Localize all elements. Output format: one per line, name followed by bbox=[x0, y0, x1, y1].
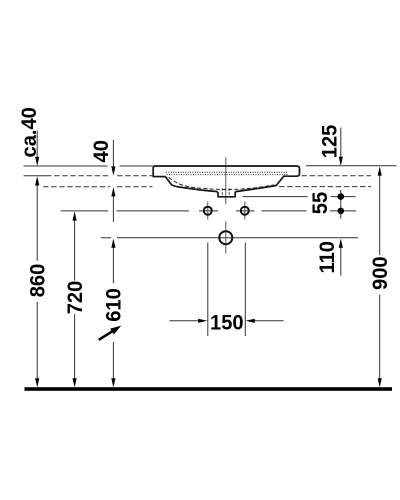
svg-text:110: 110 bbox=[316, 241, 340, 273]
svg-text:610: 610 bbox=[102, 288, 126, 322]
svg-text:55: 55 bbox=[308, 192, 332, 214]
svg-text:150: 150 bbox=[210, 311, 244, 335]
svg-text:40: 40 bbox=[89, 140, 113, 162]
svg-text:720: 720 bbox=[63, 281, 87, 315]
svg-text:860: 860 bbox=[26, 264, 50, 298]
svg-text:900: 900 bbox=[368, 256, 392, 290]
svg-text:ca.40: ca.40 bbox=[18, 107, 42, 157]
svg-text:125: 125 bbox=[318, 125, 342, 159]
